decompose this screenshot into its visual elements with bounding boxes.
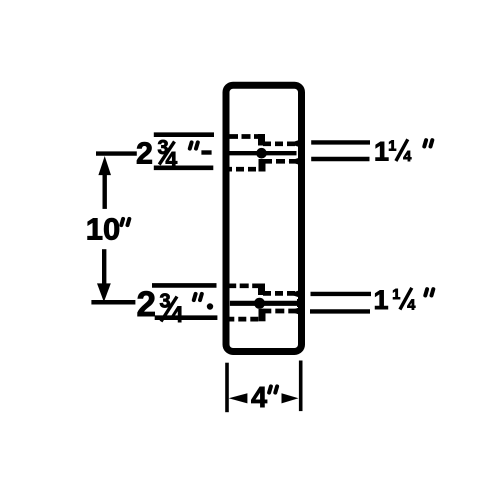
top hole: large bore hidden line upper [229,134,259,139]
top hole: centerline [226,151,296,155]
bottom hole: center dot [254,298,265,309]
bottom hole: fraction slash [400,288,412,310]
bottom hole: centerline [230,301,300,306]
svg-text:1: 1 [374,285,389,315]
bottom hole: fraction slash [161,297,177,322]
bottom hole: step shoulder upper [258,284,265,296]
10 inch dimension: top tick [96,151,137,155]
top hole: right wall blob upper [289,139,304,149]
top hole: inch mark right [424,140,432,146]
bottom hole: right extension line upper [311,292,372,296]
4 inch dimension: inch mark [269,386,277,392]
10 inch dimension: down arrowhead [97,283,111,302]
bottom hole: large bore hidden line upper [227,283,259,288]
bottom hole: large bore hidden line lower [226,317,261,322]
bottom hole: dot after label [207,303,213,309]
bottom hole: inch mark right [425,289,433,295]
10 inch dimension: up arrowhead [98,156,111,175]
svg-text:4: 4 [166,149,178,172]
part body: rounded rectangle outline [226,85,302,351]
svg-text:10: 10 [86,212,120,247]
top hole: fraction slash [159,142,174,165]
svg-text:2: 2 [136,137,153,171]
top hole: left extension line lower [154,166,214,171]
top hole: fraction slash [396,139,408,161]
top hole: inch mark [190,142,198,148]
4 inch dimension: right tick [299,361,303,412]
svg-text:1: 1 [374,137,389,167]
bottom hole: right extension line lower [310,309,370,313]
4 inch dimension: right arrowhead [282,393,299,403]
svg-text:1: 1 [388,139,396,155]
4 inch dimension: left arrowhead [229,393,248,403]
bottom hole: right wall blob upper [289,289,304,299]
bottom hole: left extension line lower [155,315,218,320]
top hole: leader dash after label [201,150,211,154]
top hole: small bore hidden line lower [263,159,297,164]
svg-text:1: 1 [392,287,400,303]
10 inch dimension: bottom tick [91,300,135,305]
top hole: left extension line upper [154,132,214,137]
10 inch dimension: inch mark [121,219,129,225]
top hole: right extension line upper [311,140,370,144]
bottom hole: small bore hidden line upper [263,291,297,296]
bottom hole: small bore hidden line lower [262,309,298,314]
10 inch dimension: lower line segment [102,249,106,284]
top hole: right extension line lower [311,157,369,161]
svg-text:4: 4 [407,298,415,314]
svg-text:2: 2 [137,285,156,324]
top hole: small bore hidden line upper [263,141,297,146]
10 inch dimension: upper line segment [102,174,106,209]
svg-text:4: 4 [171,302,184,327]
top hole: step shoulder lower [259,159,266,172]
bottom hole: step shoulder lower [259,309,266,322]
bottom hole: right wall blob center [297,299,304,307]
bottom hole: right wall blob lower [289,306,304,316]
4 inch dimension: left tick [225,363,229,413]
svg-text:4: 4 [403,149,411,165]
top hole: center dot [256,148,267,159]
top hole: step shoulder upper [258,134,265,146]
svg-text:4: 4 [251,382,267,414]
top hole: large bore hidden line lower [224,167,261,172]
bottom hole: inch mark [194,294,202,300]
top hole: right wall blob lower [289,156,304,166]
bottom hole: left extension line upper [152,283,217,288]
